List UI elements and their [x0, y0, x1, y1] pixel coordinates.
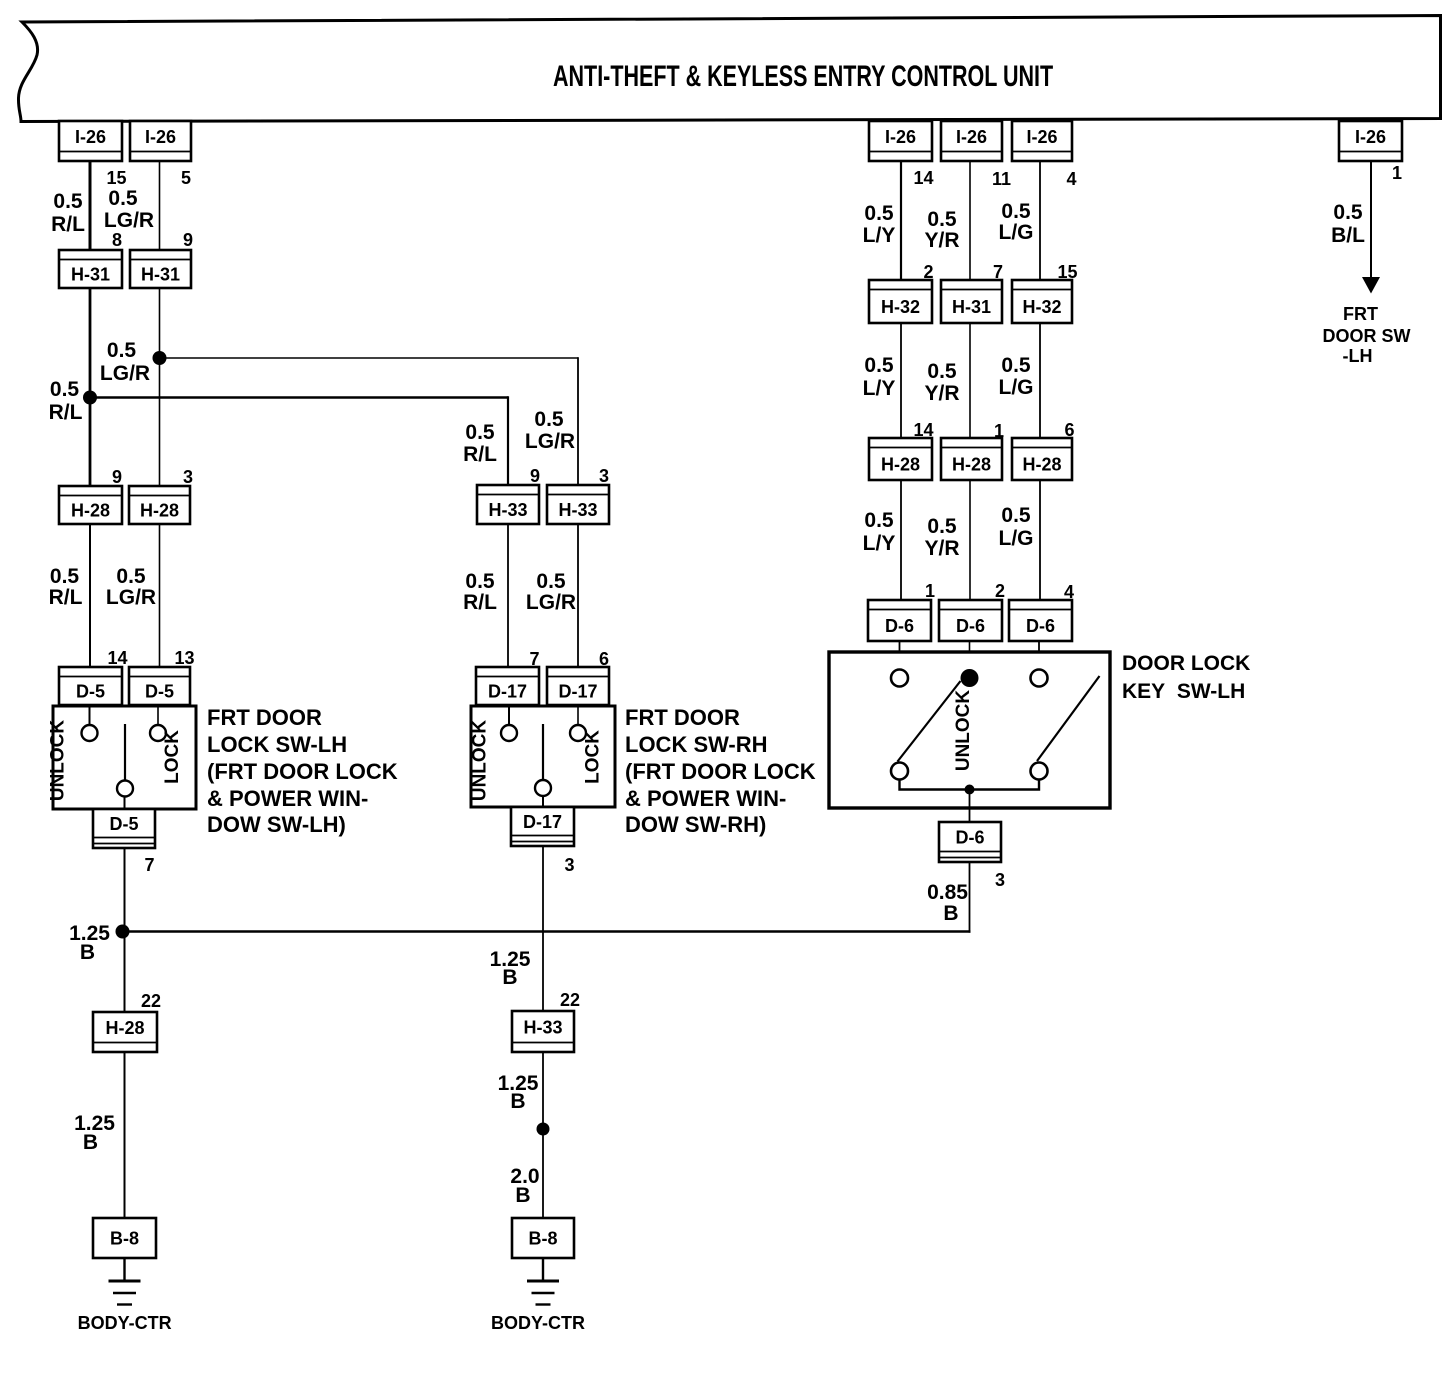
svg-text:H-28: H-28: [71, 500, 110, 520]
connector D-6 (pin 1): [868, 600, 931, 641]
svg-text:3: 3: [599, 466, 609, 486]
wire B from D-17 pin 3 to H-33: [542, 846, 544, 1011]
svg-text:R/L: R/L: [49, 401, 83, 424]
terminal common of SW-RH: [535, 780, 551, 796]
switch FRT DOOR LOCK SW-RH: [471, 706, 615, 807]
svg-text:(FRT DOOR LOCK: (FRT DOOR LOCK: [625, 759, 816, 784]
connector D-5 (pin 7): [93, 809, 155, 848]
label 0.5 L/Y top: [863, 202, 896, 247]
wire R/L from I-26 pin 15 to H-31: [89, 161, 92, 250]
label 0.5 L/Y mid: [863, 354, 896, 400]
wire LG/R jumper vertical to H-33: [577, 357, 579, 485]
svg-text:0.5: 0.5: [50, 565, 80, 588]
label 0.5 Y/R mid: [924, 360, 959, 405]
svg-text:H-31: H-31: [952, 297, 991, 317]
label 0.5 L/Y low: [863, 509, 896, 555]
wire stub D-5 13 to lock terminal: [157, 705, 159, 725]
svg-text:I-26: I-26: [885, 127, 916, 147]
svg-text:D-6: D-6: [956, 616, 985, 636]
label 0.5 R/L at splice: [49, 378, 83, 424]
connector B-8 left: [93, 1218, 156, 1258]
wire L/Y from H-28 to D-6: [900, 480, 902, 600]
wire LG/R from H-28 to D-5: [159, 524, 161, 667]
terminal lower-left of key switch: [891, 763, 908, 780]
wire B from D-5 pin 7 to ground bus: [124, 848, 126, 1012]
ground BODY-CTR middle: [527, 1281, 559, 1305]
svg-text:7: 7: [144, 855, 154, 875]
connector D-17 (pin 7): [476, 667, 539, 705]
connector H-28 (pin 9): [59, 486, 122, 524]
svg-text:B: B: [510, 1090, 525, 1113]
svg-text:H-33: H-33: [558, 500, 597, 520]
connector H-28 (pin 3): [129, 486, 190, 524]
svg-text:15: 15: [106, 168, 126, 188]
svg-text:H-33: H-33: [488, 500, 527, 520]
connector D-6 (pin 2): [939, 600, 1002, 641]
label 1.25 B mid: [490, 948, 531, 989]
svg-text:H-28: H-28: [952, 454, 991, 474]
wire B from H-33 pin 22 to splice: [542, 1052, 544, 1218]
svg-text:B: B: [515, 1184, 530, 1207]
connector I-26 (pin 14): [869, 121, 932, 161]
label 0.5 LG/R lower-left: [106, 565, 156, 609]
svg-text:& POWER WIN-: & POWER WIN-: [207, 786, 368, 811]
svg-text:0.5: 0.5: [1333, 201, 1363, 224]
svg-text:Y/R: Y/R: [924, 229, 959, 252]
svg-text:UNLOCK: UNLOCK: [470, 720, 491, 802]
label 1.25 B bus: [69, 922, 110, 964]
svg-text:0.5: 0.5: [864, 354, 894, 377]
label 0.5 R/L upper-left: [51, 190, 85, 236]
svg-text:I-26: I-26: [956, 127, 987, 147]
label 0.5 Y/R top: [924, 208, 959, 252]
svg-text:D-5: D-5: [109, 814, 138, 834]
svg-text:0.5: 0.5: [116, 565, 146, 588]
svg-text:(FRT DOOR LOCK: (FRT DOOR LOCK: [207, 759, 398, 784]
label 0.5 L/G mid: [999, 354, 1034, 399]
svg-text:B: B: [943, 902, 958, 925]
wire stub D-17 7 to unlock terminal: [508, 705, 510, 725]
wire stub D-6 4 to key switch: [1038, 641, 1040, 670]
svg-text:0.5: 0.5: [534, 408, 564, 431]
svg-text:LOCK: LOCK: [583, 730, 604, 784]
svg-text:3: 3: [995, 870, 1005, 890]
wire R/L jumper vertical to H-33: [507, 396, 509, 485]
svg-text:0.5: 0.5: [927, 208, 957, 231]
svg-text:9: 9: [530, 466, 540, 486]
arrowhead to FRT DOOR SW-LH: [1362, 277, 1380, 294]
wire Y/R from H-28 to D-6: [969, 480, 971, 600]
svg-text:B-8: B-8: [528, 1229, 557, 1249]
svg-text:9: 9: [183, 230, 193, 250]
svg-text:R/L: R/L: [49, 586, 83, 609]
svg-text:L/Y: L/Y: [863, 224, 896, 247]
svg-text:0.5: 0.5: [864, 509, 894, 532]
svg-text:0.5: 0.5: [465, 421, 495, 444]
svg-text:2: 2: [995, 581, 1005, 601]
svg-text:D-6: D-6: [955, 827, 984, 847]
wire L/Y from H-32 to H-28: [900, 323, 902, 438]
connector H-28 (pin 14): [869, 438, 932, 480]
svg-text:H-28: H-28: [105, 1018, 144, 1038]
label 0.5 L/G low: [999, 504, 1034, 550]
wire stub B-8 to ground middle: [542, 1258, 544, 1281]
wire LG/R from H-33 to D-17: [577, 524, 579, 667]
connector H-33 (pin 3): [547, 485, 609, 524]
svg-text:L/G: L/G: [999, 376, 1034, 399]
svg-text:13: 13: [174, 648, 194, 668]
terminal left of key switch: [891, 670, 908, 687]
wire R/L jumper horizontal: [90, 396, 508, 398]
svg-text:UNLOCK: UNLOCK: [953, 690, 974, 772]
svg-text:H-32: H-32: [881, 297, 920, 317]
connector H-28 (pin 1): [941, 438, 1002, 480]
svg-text:14: 14: [107, 648, 127, 668]
wire stub D-5 14 to unlock terminal: [89, 705, 91, 725]
label 0.5 R/L mid lower: [463, 570, 497, 614]
svg-text:LOCK SW-LH: LOCK SW-LH: [207, 732, 347, 757]
label 0.5 LG/R mid lower: [526, 570, 576, 614]
connector D-5 (pin 13): [129, 667, 190, 705]
connector D-5 (pin 14): [59, 667, 122, 705]
svg-text:UNLOCK: UNLOCK: [48, 720, 69, 802]
svg-text:1: 1: [1392, 163, 1402, 183]
connector I-26 (pin 4): [1012, 121, 1072, 161]
ground BODY-CTR left: [109, 1281, 141, 1305]
wire LG/R jumper horizontal: [160, 357, 579, 359]
svg-text:FRT DOOR: FRT DOOR: [625, 705, 740, 730]
wire B/L from I-26 pin 1: [1370, 161, 1372, 278]
svg-text:4: 4: [1066, 169, 1076, 189]
svg-text:LG/R: LG/R: [104, 209, 154, 232]
connector H-31 (pin 7): [941, 280, 1002, 323]
connector D-6 (pin 3): [939, 822, 1001, 862]
switch DOOR LOCK KEY SW-LH: [829, 652, 1110, 808]
wire R/L from H-33 to D-17: [507, 524, 509, 667]
svg-text:H-31: H-31: [71, 264, 110, 284]
svg-text:D-17: D-17: [523, 812, 562, 832]
svg-text:I-26: I-26: [1355, 127, 1386, 147]
wire L/G from H-32 to H-28: [1039, 323, 1041, 438]
svg-text:B: B: [502, 966, 517, 989]
label 1.25 B mid-low: [498, 1072, 539, 1113]
svg-text:LG/R: LG/R: [525, 430, 575, 453]
terminal right of key switch: [1031, 670, 1048, 687]
svg-text:L/G: L/G: [999, 221, 1034, 244]
control unit ANTI-THEFT & KEYLESS ENTRY CONTROL UNIT: [18, 16, 1440, 122]
junction node LG/R splice: [153, 351, 167, 365]
svg-text:R/L: R/L: [51, 213, 85, 236]
wire B from D-6 pin 3 to ground bus: [969, 862, 971, 933]
svg-text:3: 3: [564, 855, 574, 875]
svg-text:1: 1: [925, 581, 935, 601]
label FRT DOOR SW -LH: [1323, 304, 1411, 366]
svg-text:D-17: D-17: [558, 681, 597, 701]
label 0.85 B: [927, 881, 968, 925]
wire common link of key switch: [900, 779, 1040, 790]
label 0.5 R/L lower-left: [49, 565, 83, 609]
switch lever SW-RH: [542, 724, 544, 780]
svg-text:H-28: H-28: [140, 500, 179, 520]
wire stub B-8 to ground left: [123, 1258, 125, 1281]
svg-text:0.5: 0.5: [1001, 504, 1031, 527]
svg-text:0.5: 0.5: [50, 378, 80, 401]
connector H-28 (pin 6): [1012, 438, 1072, 480]
svg-text:H-32: H-32: [1022, 297, 1061, 317]
svg-text:I-26: I-26: [75, 127, 106, 147]
terminal common of SW-LH: [117, 781, 133, 797]
svg-text:R/L: R/L: [463, 591, 497, 614]
wire common of SW-RH to D-17: [542, 796, 544, 807]
junction node R/L splice: [83, 391, 97, 405]
svg-text:0.5: 0.5: [1001, 354, 1031, 377]
svg-text:B-8: B-8: [110, 1229, 139, 1249]
label 0.5 LG/R at splice: [100, 339, 150, 385]
wire LG/R from H-31 to H-28: [159, 288, 161, 486]
svg-text:DOW SW-RH): DOW SW-RH): [625, 812, 766, 837]
svg-text:I-26: I-26: [145, 127, 176, 147]
label 1.25 B left-low: [74, 1112, 115, 1154]
wire stub D-6 1 to key switch: [899, 641, 901, 670]
svg-text:11: 11: [992, 169, 1011, 189]
svg-text:0.5: 0.5: [1001, 200, 1031, 223]
terminal lock of SW-RH: [570, 725, 586, 741]
terminal lock of SW-LH: [150, 725, 166, 741]
svg-text:L/G: L/G: [999, 527, 1034, 550]
svg-text:L/Y: L/Y: [863, 532, 896, 555]
svg-text:Y/R: Y/R: [924, 382, 959, 405]
svg-text:B/L: B/L: [1331, 224, 1365, 247]
svg-text:& POWER WIN-: & POWER WIN-: [625, 786, 786, 811]
svg-text:R/L: R/L: [463, 443, 497, 466]
contact arm left of key switch: [898, 681, 961, 762]
wire stub D-17 6 to lock terminal: [577, 705, 579, 725]
svg-text:DOW SW-LH): DOW SW-LH): [207, 812, 346, 837]
svg-text:9: 9: [112, 467, 122, 487]
connector H-28 (pin 22): [93, 1012, 157, 1052]
label 0.5 LG/R upper-left: [104, 187, 154, 232]
terminal lower-right of key switch: [1031, 763, 1048, 780]
label 0.5 B/L: [1331, 201, 1365, 247]
svg-text:0.5: 0.5: [536, 570, 566, 593]
svg-text:0.5: 0.5: [927, 360, 957, 383]
wire Y/R from I-26 pin 11 to H-31: [969, 161, 971, 280]
connector B-8 middle: [512, 1218, 574, 1258]
wire common of SW-LH to D-5: [124, 797, 126, 810]
connector I-26 (pin 1): [1339, 121, 1402, 161]
svg-text:DOOR LOCK: DOOR LOCK: [1122, 652, 1250, 675]
svg-text:FRT: FRT: [1343, 304, 1378, 324]
svg-text:I-26: I-26: [1026, 127, 1057, 147]
connector D-6 (pin 4): [1009, 600, 1072, 641]
svg-text:3: 3: [183, 467, 193, 487]
svg-text:BODY-CTR: BODY-CTR: [78, 1313, 172, 1333]
svg-text:B: B: [80, 941, 95, 964]
wire L/G from H-28 to D-6: [1039, 480, 1041, 600]
svg-text:0.5: 0.5: [107, 339, 137, 362]
connector H-32 (pin 2): [869, 280, 932, 323]
wire Y/R from H-31 to H-28: [969, 323, 971, 438]
label DOOR LOCK KEY SW-LH: [1122, 652, 1250, 703]
svg-text:BODY-CTR: BODY-CTR: [491, 1313, 585, 1333]
svg-text:14: 14: [913, 168, 933, 188]
connector H-33 (pin 9): [477, 485, 539, 524]
label 0.5 Y/R low: [924, 515, 959, 560]
svg-text:LG/R: LG/R: [106, 586, 156, 609]
connector H-32 (pin 15): [1012, 280, 1072, 323]
svg-text:LOCK: LOCK: [162, 730, 183, 784]
svg-text:FRT DOOR: FRT DOOR: [207, 705, 322, 730]
wire stub D-6 2 to key switch: [969, 641, 971, 670]
terminal unlock of SW-LH: [82, 725, 98, 741]
label FRT DOOR LOCK SW-LH: [207, 705, 398, 837]
label 0.5 L/G top: [999, 200, 1034, 244]
connector D-17 (pin 6): [547, 667, 609, 705]
junction node B splice middle: [537, 1123, 550, 1136]
svg-text:D-17: D-17: [488, 681, 527, 701]
svg-text:L/Y: L/Y: [863, 377, 896, 400]
wire B from H-28 pin 22 to B-8: [124, 1052, 126, 1218]
svg-text:-LH: -LH: [1343, 346, 1373, 366]
svg-text:D-6: D-6: [1026, 616, 1055, 636]
svg-text:D-5: D-5: [145, 681, 174, 701]
svg-text:ANTI-THEFT & KEYLESS ENTRY CON: ANTI-THEFT & KEYLESS ENTRY CONTROL UNIT: [553, 58, 1053, 92]
svg-text:5: 5: [181, 168, 191, 188]
svg-text:D-5: D-5: [76, 681, 105, 701]
label 0.5 R/L mid upper: [463, 421, 497, 466]
connector D-17 (pin 3): [511, 807, 574, 846]
svg-text:LG/R: LG/R: [100, 362, 150, 385]
wire R/L from H-31 to H-28: [89, 288, 92, 486]
svg-text:0.5: 0.5: [53, 190, 83, 213]
wire common of key switch to D-6: [969, 790, 971, 823]
svg-text:H-28: H-28: [881, 454, 920, 474]
contact arm right of key switch: [1037, 676, 1100, 761]
wire L/G from I-26 pin 4 to H-32: [1039, 161, 1041, 280]
svg-text:0.5: 0.5: [864, 202, 894, 225]
svg-text:8: 8: [112, 230, 122, 250]
svg-text:H-33: H-33: [523, 1017, 562, 1037]
svg-text:22: 22: [141, 991, 161, 1011]
connector H-31 (pin 9): [130, 250, 191, 288]
connector I-26 (pin 15): [59, 121, 122, 161]
svg-text:KEY SW-LH: KEY SW-LH: [1122, 680, 1245, 703]
junction node key switch common: [965, 785, 975, 795]
connector H-31 (pin 8): [59, 250, 122, 288]
svg-text:0.5: 0.5: [465, 570, 495, 593]
wire ground bus B: [123, 930, 971, 932]
svg-text:H-31: H-31: [141, 264, 180, 284]
label 0.5 LG/R mid upper: [525, 408, 575, 453]
terminal center of key switch (filled): [961, 669, 979, 687]
wire R/L from H-28 to D-5: [89, 524, 91, 667]
svg-text:22: 22: [560, 990, 580, 1010]
wire L/Y from I-26 pin 14 to H-32: [900, 161, 902, 280]
svg-text:0.5: 0.5: [927, 515, 957, 538]
wire LG/R from I-26 pin 5 to H-31: [159, 161, 161, 250]
svg-text:0.5: 0.5: [108, 187, 138, 210]
junction node ground bus left: [116, 925, 130, 939]
svg-text:H-28: H-28: [1022, 454, 1061, 474]
connector I-26 (pin 11): [941, 121, 1002, 161]
svg-text:Y/R: Y/R: [924, 537, 959, 560]
terminal unlock of SW-RH: [501, 725, 517, 741]
svg-text:LOCK SW-RH: LOCK SW-RH: [625, 732, 768, 757]
svg-text:B: B: [83, 1131, 98, 1154]
svg-text:LG/R: LG/R: [526, 591, 576, 614]
svg-text:D-6: D-6: [885, 616, 914, 636]
svg-text:DOOR SW: DOOR SW: [1323, 326, 1411, 346]
switch lever SW-LH: [124, 724, 126, 781]
connector I-26 (pin 5): [130, 121, 191, 161]
svg-text:0.85: 0.85: [927, 881, 968, 904]
label FRT DOOR LOCK SW-RH: [625, 705, 816, 837]
label 2.0 B: [510, 1165, 539, 1207]
switch FRT DOOR LOCK SW-LH: [53, 706, 196, 809]
connector H-33 (pin 22): [512, 1011, 574, 1052]
